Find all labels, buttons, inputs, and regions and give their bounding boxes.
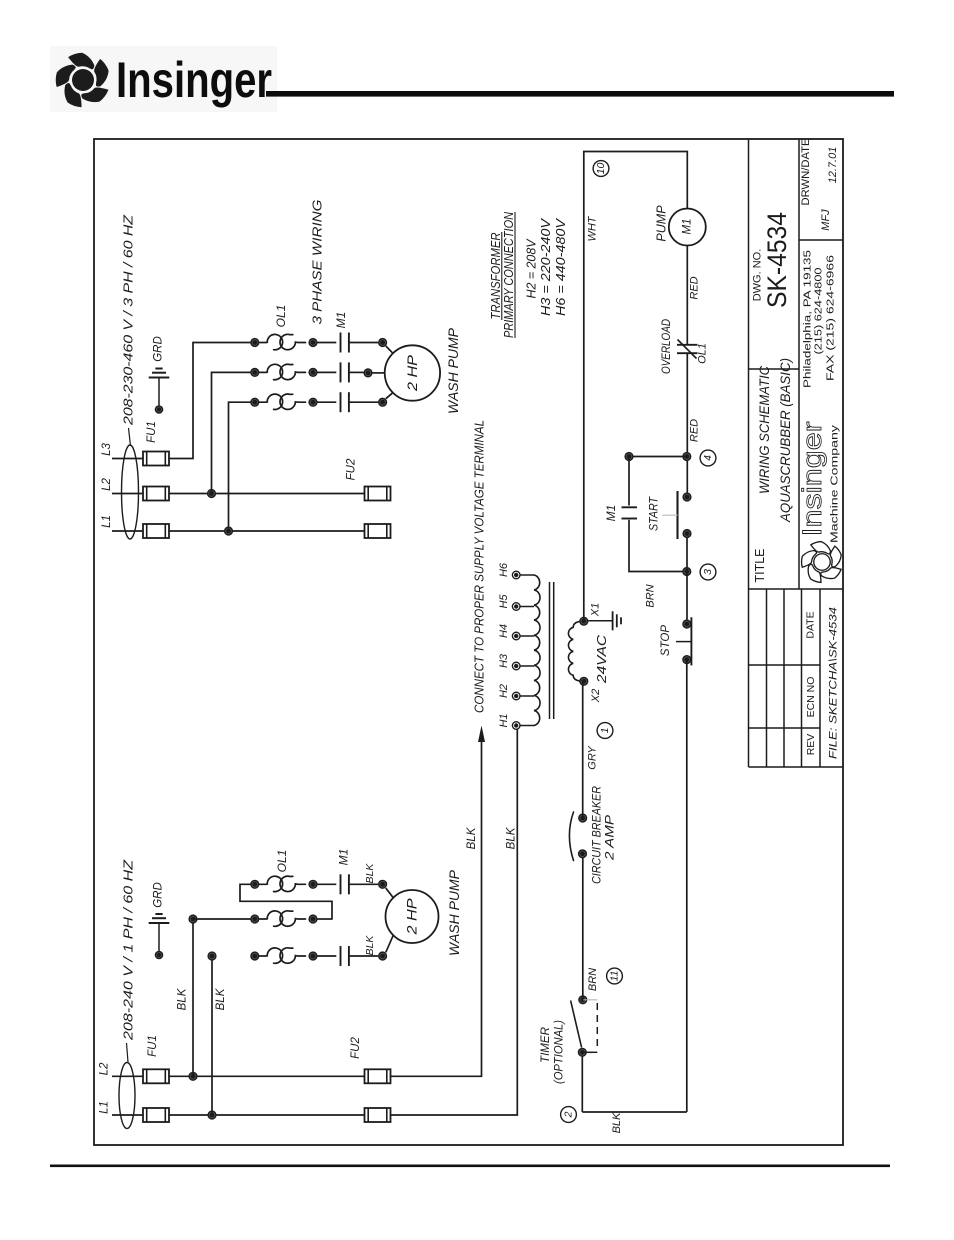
overload OL1 contact xyxy=(677,344,698,346)
header rule line xyxy=(266,91,894,97)
wire L2 lead (1 phase) xyxy=(112,1075,143,1077)
arrowhead connect-supply xyxy=(478,726,485,743)
Insinger swirl logo xyxy=(56,53,109,107)
transformer core xyxy=(549,582,551,719)
fuse FU1 pole L3 xyxy=(143,452,169,466)
svg-text:CONNECT TO PROPER SUPPLY VOLTA: CONNECT TO PROPER SUPPLY VOLTAGE TERMINA… xyxy=(473,420,487,713)
wire L3 lead xyxy=(112,458,143,460)
fuse FU1 pole L2 xyxy=(143,487,169,501)
svg-text:FILE: SKETCHA\SK-4534: FILE: SKETCHA\SK-4534 xyxy=(828,607,840,759)
svg-text:H5: H5 xyxy=(498,594,510,609)
wire aux branch bottom xyxy=(629,521,687,572)
svg-text:GRD: GRD xyxy=(153,882,165,908)
wire control top loop xyxy=(584,152,688,622)
svg-text:Insinger: Insinger xyxy=(797,421,827,536)
svg-text:L2: L2 xyxy=(99,1062,111,1075)
wire overload to start xyxy=(686,353,688,492)
svg-text:WASH PUMP: WASH PUMP xyxy=(445,327,461,414)
svg-text:H6: H6 xyxy=(498,562,510,577)
terminal H4 xyxy=(512,632,520,640)
svg-text:BLK: BLK xyxy=(364,935,376,956)
ground GRD (1 phase) xyxy=(155,913,162,915)
wire L2 feed to voltage-terminal arrow xyxy=(391,741,482,1076)
svg-text:BRN: BRN xyxy=(587,968,599,991)
svg-text:WASH PUMP: WASH PUMP xyxy=(446,869,462,956)
svg-text:FU1: FU1 xyxy=(147,1035,159,1057)
wire L1 lead (1 phase) xyxy=(112,1114,143,1116)
svg-text:SK-4534: SK-4534 xyxy=(762,212,792,308)
circuit breaker 2 AMP xyxy=(578,813,587,822)
terminal dot top pole left (1 phase) xyxy=(250,880,259,889)
node L1 L2 supply cable oval (1 phase) xyxy=(119,1063,135,1129)
svg-text:OL1: OL1 xyxy=(275,850,289,873)
wire riser L2 to OL1 middle pole xyxy=(192,919,194,1076)
wire L2 run (1 phase) xyxy=(169,1075,365,1077)
ground GRD (3 phase) xyxy=(155,368,162,370)
overload OL1 heater bottom pole (1 phase) xyxy=(260,948,283,963)
svg-text:RED: RED xyxy=(689,276,701,299)
overload OL1 heater top pole (1 phase) xyxy=(260,876,283,891)
svg-text:OL1: OL1 xyxy=(274,305,288,328)
terminal dot phase B mid xyxy=(308,368,317,377)
contactor M1 contact bottom pole (1 phase) xyxy=(340,946,342,966)
timer switch TIMER (OPTIONAL) xyxy=(578,995,587,1004)
svg-text:FU2: FU2 xyxy=(346,458,358,480)
svg-text:24VAC: 24VAC xyxy=(594,634,609,684)
wire aux branch top xyxy=(629,456,687,458)
fuse FU2 L1 (1 phase) xyxy=(365,1108,391,1122)
junction main/aux bottom xyxy=(682,567,691,576)
svg-text:X2: X2 xyxy=(590,689,602,703)
wire phase A to motor xyxy=(349,342,378,344)
svg-text:Insinger: Insinger xyxy=(116,52,272,108)
wire aux branch down xyxy=(628,457,630,506)
svg-text:M1: M1 xyxy=(337,849,351,866)
pushbutton STOP xyxy=(682,619,691,628)
svg-text:M1: M1 xyxy=(604,505,618,522)
wire top pole to motor xyxy=(349,883,378,885)
svg-text:MFJ: MFJ xyxy=(820,209,832,231)
node 1 xyxy=(597,723,613,739)
junction aux top xyxy=(624,452,633,461)
svg-text:L3: L3 xyxy=(101,443,113,456)
contact M1 aux xyxy=(622,506,638,508)
svg-text:START: START xyxy=(649,496,661,531)
svg-text:L1: L1 xyxy=(99,1101,111,1114)
overload OL1 heater pole B xyxy=(260,364,283,379)
terminal H2 xyxy=(512,692,520,700)
wire bottom pole to motor xyxy=(349,955,378,957)
svg-text:BLK: BLK xyxy=(364,863,376,884)
title block frame lines xyxy=(748,139,750,767)
svg-text:BRN: BRN xyxy=(645,584,657,607)
svg-text:FU2: FU2 xyxy=(350,1037,362,1059)
fuse FU1 pole L1 (1 phase) xyxy=(143,1108,169,1122)
fuse FU2 stub L2 (3 phase) xyxy=(365,487,391,501)
terminal X2 xyxy=(579,677,588,686)
junction L1/phase C xyxy=(224,526,233,535)
terminal dot middle pole mid (1 phase) xyxy=(308,914,317,923)
svg-text:PUMP: PUMP xyxy=(655,205,669,242)
Insinger logo backdrop xyxy=(50,46,277,112)
terminal dot phase A mid xyxy=(308,338,317,347)
overload OL1 heater middle pole (1 phase) xyxy=(260,911,283,926)
wire middle pole to U-link xyxy=(318,918,333,920)
wire phase B to motor xyxy=(349,371,364,373)
wire timer to breaker xyxy=(582,854,584,1000)
wire breaker to X2 xyxy=(582,681,584,818)
wire L2 lead xyxy=(112,493,143,495)
svg-text:208-240 V / 1 PH / 60 HZ: 208-240 V / 1 PH / 60 HZ xyxy=(121,859,136,1042)
svg-text:H3: H3 xyxy=(498,653,510,668)
fuse FU1 pole L1 xyxy=(143,524,169,538)
node 2 xyxy=(561,1107,577,1123)
terminal X1 xyxy=(579,617,588,626)
wire pump to overload xyxy=(686,246,688,345)
svg-text:(OPTIONAL): (OPTIONAL) xyxy=(554,1020,566,1084)
wire start to stop xyxy=(686,538,688,620)
svg-text:BLK: BLK xyxy=(611,1112,623,1133)
transformer secondary winding 24VAC xyxy=(568,621,583,681)
junction L2 riser xyxy=(188,1072,197,1081)
svg-text:CIRCUIT BREAKER: CIRCUIT BREAKER xyxy=(590,786,604,884)
svg-text:BLK: BLK xyxy=(215,987,227,1010)
ground at X1 xyxy=(612,611,614,630)
svg-text:H2: H2 xyxy=(498,684,510,698)
terminal dot top pole mid (1 phase) xyxy=(308,880,317,889)
terminal dot phase C left xyxy=(250,398,259,407)
fuse FU2 L2 (1 phase) xyxy=(365,1069,391,1083)
svg-text:3: 3 xyxy=(702,569,714,575)
terminal dot bottom pole mid (1 phase) xyxy=(308,951,317,960)
svg-text:Machine Company: Machine Company xyxy=(829,424,841,543)
wire riser L1 to OL1 bottom pole xyxy=(211,956,213,1115)
pump contactor coil M1 xyxy=(669,209,706,246)
transformer primary winding xyxy=(534,575,540,726)
terminal H3 xyxy=(512,662,520,670)
svg-text:M1: M1 xyxy=(681,219,693,235)
motor wash pump 2 HP (1 phase) xyxy=(386,890,439,943)
wire bottom pole to contactor xyxy=(318,955,337,957)
svg-text:L1: L1 xyxy=(101,515,113,528)
svg-text:L2: L2 xyxy=(101,478,113,491)
junction main/aux top xyxy=(682,452,691,461)
svg-text:FAX (215) 624-6966: FAX (215) 624-6966 xyxy=(825,255,837,381)
wire L2 run to FU2 xyxy=(169,493,365,495)
wire L3 to phase A riser xyxy=(169,343,251,459)
svg-text:OVERLOAD: OVERLOAD xyxy=(661,319,673,374)
node 10 xyxy=(593,161,609,177)
svg-text:TIMER: TIMER xyxy=(540,1027,552,1063)
svg-text:FU1: FU1 xyxy=(146,421,158,443)
overload OL1 heater pole C xyxy=(260,394,283,409)
wire stop to bottom rail xyxy=(686,660,688,1112)
svg-text:DRWN/DATE: DRWN/DATE xyxy=(800,139,812,206)
terminal H1 xyxy=(512,722,520,730)
junction OL1 middle pole feed xyxy=(188,914,197,923)
wire pole C to contactor xyxy=(318,401,337,403)
svg-text:OL1: OL1 xyxy=(697,343,709,364)
svg-text:10: 10 xyxy=(595,163,607,175)
svg-text:STOP: STOP xyxy=(660,625,672,656)
contactor M1 contact pole B xyxy=(340,362,342,382)
wire bottom rail xyxy=(582,1111,687,1113)
svg-text:DATE: DATE xyxy=(805,611,817,638)
pushbutton START xyxy=(682,492,691,501)
wire L1 run (1 phase) xyxy=(169,1114,365,1116)
wire L1 feed to H1 xyxy=(391,730,518,1115)
svg-text:WIRING SCHEMATIC: WIRING SCHEMATIC xyxy=(757,366,772,494)
wire phase C to motor xyxy=(349,401,378,403)
contactor M1 contact top pole (1 phase) xyxy=(340,874,342,894)
svg-text:12.7.01: 12.7.01 xyxy=(827,147,839,184)
wire phase B riser xyxy=(212,372,251,493)
fuse FU2 stub L1 (3 phase) xyxy=(365,524,391,538)
svg-text:GRD: GRD xyxy=(153,336,165,362)
svg-text:11: 11 xyxy=(609,971,621,982)
svg-text:WHT: WHT xyxy=(587,215,599,241)
terminal H5 xyxy=(512,603,520,611)
svg-text:H4: H4 xyxy=(498,624,510,638)
svg-text:4: 4 xyxy=(702,455,714,461)
wire L1 run to FU2 xyxy=(169,530,365,532)
svg-text:H2 = 208V: H2 = 208V xyxy=(524,238,539,298)
svg-text:M1: M1 xyxy=(334,312,348,329)
svg-text:2 HP: 2 HP xyxy=(405,355,420,392)
node L1 L2 L3 supply cable oval (3 phase) xyxy=(122,445,139,539)
fuse FU1 pole L2 (1 phase) xyxy=(143,1069,169,1083)
svg-text:BLK: BLK xyxy=(466,826,478,849)
svg-text:BLK: BLK xyxy=(506,826,518,849)
svg-text:208-230-460 V / 3 PH / 60 HZ: 208-230-460 V / 3 PH / 60 HZ xyxy=(121,214,136,427)
junction L1 riser xyxy=(207,1110,216,1119)
svg-text:3 PHASE WIRING: 3 PHASE WIRING xyxy=(310,200,325,325)
wire L1 lead xyxy=(112,530,143,532)
node 11 xyxy=(607,968,623,984)
motor wash pump 2 HP (3 phase) xyxy=(385,345,440,400)
wire pole A to contactor xyxy=(318,342,337,344)
svg-text:AQUASCRUBBER (BASIC): AQUASCRUBBER (BASIC) xyxy=(778,358,793,523)
svg-text:TITLE: TITLE xyxy=(753,548,767,582)
terminal H6 xyxy=(512,571,520,579)
terminal dot phase A left xyxy=(250,338,259,347)
node 3 xyxy=(700,564,716,580)
contactor M1 contact pole C xyxy=(340,392,342,412)
svg-text:RED: RED xyxy=(689,419,701,442)
wire top pole to contactor xyxy=(318,883,337,885)
wire timer to corner xyxy=(581,1052,583,1112)
svg-text:X1: X1 xyxy=(590,603,602,617)
wire OL1 middle pole left xyxy=(193,918,251,920)
svg-text:(215) 624-4800: (215) 624-4800 xyxy=(813,267,825,354)
overload OL1 heater pole A xyxy=(260,334,283,349)
svg-text:H6 = 440-480V: H6 = 440-480V xyxy=(553,218,568,316)
terminal dot bottom pole left (1 phase) xyxy=(250,951,259,960)
terminal dot phase C mid xyxy=(308,398,317,407)
contactor M1 contact pole A xyxy=(340,333,342,353)
svg-text:BLK: BLK xyxy=(177,987,189,1010)
terminal dot middle pole left (1 phase) xyxy=(250,914,259,923)
junction OL1 bottom pole feed xyxy=(207,951,216,960)
svg-text:2: 2 xyxy=(563,1111,575,1118)
drawing border frame xyxy=(94,139,843,1145)
svg-text:ECN NO: ECN NO xyxy=(805,677,817,718)
svg-text:H1: H1 xyxy=(498,713,510,727)
Insinger swirl (title block) xyxy=(802,542,842,583)
wire pole B to contactor xyxy=(318,371,337,373)
svg-text:1: 1 xyxy=(599,728,611,734)
wire phase C riser xyxy=(229,402,251,531)
bottom rule line xyxy=(50,1165,890,1168)
svg-text:PRIMARY CONNECTION: PRIMARY CONNECTION xyxy=(501,211,516,338)
junction L2/phase B xyxy=(207,489,216,498)
wire series U-link top/middle poles xyxy=(240,884,332,919)
node 4 xyxy=(700,450,716,466)
wire X1 to ground xyxy=(588,620,612,622)
svg-text:REV: REV xyxy=(805,734,817,756)
svg-text:2 AMP: 2 AMP xyxy=(603,815,617,861)
svg-text:GRY: GRY xyxy=(587,746,599,770)
terminal dot phase B left xyxy=(250,368,259,377)
svg-text:2 HP: 2 HP xyxy=(405,899,420,936)
svg-text:H3 = 220-240V: H3 = 220-240V xyxy=(538,218,553,316)
